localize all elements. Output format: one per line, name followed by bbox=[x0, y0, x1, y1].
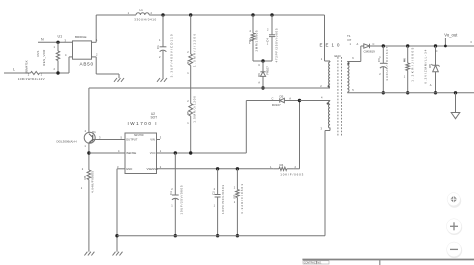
svg-text:SOT: SOT bbox=[151, 116, 158, 120]
node N-RV1 junction bbox=[56, 41, 59, 44]
svg-text:R5: R5 bbox=[186, 111, 190, 115]
wire snubber bottom bbox=[253, 60, 272, 62]
node L-RV1 junction bbox=[56, 71, 59, 74]
svg-text:C: C bbox=[373, 42, 375, 46]
node C6 bottom bbox=[382, 91, 385, 94]
zener D8 bbox=[424, 46, 440, 93]
node C3 bottom bbox=[174, 234, 177, 237]
svg-text:OUTPUT: OUTPUT bbox=[126, 138, 138, 142]
svg-text:IW1700 I: IW1700 I bbox=[128, 121, 157, 126]
svg-text:C: C bbox=[258, 63, 260, 67]
wire bridge pin1 to top rail bbox=[92, 15, 97, 42]
svg-text:FR107: FR107 bbox=[266, 66, 270, 75]
svg-text:C6: C6 bbox=[377, 58, 381, 62]
node Vo_out flag bbox=[444, 33, 458, 48]
zoom buttons bbox=[446, 193, 462, 259]
wire aux pin3 drop bbox=[321, 127, 331, 236]
node startup R bottom bbox=[189, 151, 192, 154]
svg-text:L: L bbox=[13, 67, 15, 71]
svg-text:10R/1W/D4L12V: 10R/1W/D4L12V bbox=[18, 77, 45, 81]
svg-text:B5M471K: B5M471K bbox=[25, 60, 29, 73]
wire top rail left bbox=[96, 14, 136, 16]
svg-text:DGL3006(A)-H: DGL3006(A)-H bbox=[57, 139, 77, 143]
node C1 top bbox=[161, 13, 164, 16]
svg-text:330UH/0410: 330UH/0410 bbox=[134, 18, 156, 22]
wire VSENSE rail bbox=[157, 168, 274, 170]
capacitor C1 3.3UF/400V bbox=[156, 15, 174, 78]
node C6 top bbox=[382, 44, 385, 47]
svg-text:330UF/10V/6X7: 330UF/10V/6X7 bbox=[385, 46, 389, 80]
svg-text:6.2V/ZMM/LL-34: 6.2V/ZMM/LL-34 bbox=[424, 49, 428, 83]
core bbox=[337, 57, 339, 136]
diode D7 CM5819 output bbox=[350, 42, 474, 54]
wire IC pin3 NC stub bbox=[157, 139, 161, 141]
svg-text:RES_VDR: RES_VDR bbox=[42, 49, 46, 66]
wire Q1 emitter bbox=[88, 143, 90, 170]
svg-text:CONTRACT: CONTRACT bbox=[304, 262, 318, 265]
svg-text:R3: R3 bbox=[186, 60, 190, 64]
svg-text:NO.: NO. bbox=[317, 262, 322, 265]
wire aux junction to T1 pin4 bbox=[300, 100, 331, 102]
svg-text:A: A bbox=[289, 96, 291, 100]
node snubber R2 top bbox=[251, 13, 254, 16]
svg-text:10UF/25V/0805: 10UF/25V/0805 bbox=[179, 185, 183, 214]
wire IC GND pin to ground bbox=[117, 169, 125, 252]
node C2 bottom bbox=[216, 234, 219, 237]
diode D6 FR107 clamp bbox=[257, 61, 270, 88]
svg-text:C: C bbox=[436, 49, 438, 53]
svg-text:4.32K/F/0603: 4.32K/F/0603 bbox=[240, 184, 244, 214]
bridge rectifier U1 AB50 bbox=[58, 35, 99, 67]
wire VCC riser bbox=[245, 101, 247, 154]
node VCC cap bbox=[174, 151, 177, 154]
resistor F1 (fusible 10R/1W) bbox=[18, 60, 45, 81]
title block bbox=[302, 260, 474, 265]
node snubber C4 top bbox=[270, 13, 273, 16]
svg-text:L1: L1 bbox=[140, 8, 144, 12]
primary winding bbox=[329, 62, 330, 87]
resistor R5 1.5M lower bbox=[186, 96, 196, 153]
svg-text:1.5MR/J/1206: 1.5MR/J/1206 bbox=[192, 34, 196, 67]
secondary winding bbox=[347, 62, 349, 93]
wire GND rail bbox=[117, 235, 325, 237]
wire top rail right bbox=[149, 14, 324, 16]
node emitter-ISENSE junction bbox=[87, 151, 90, 154]
inductor L1 330UH bbox=[128, 8, 157, 22]
node R8 bottom bbox=[406, 91, 409, 94]
transformer T1 EE10 bbox=[320, 15, 355, 136]
svg-text:R8: R8 bbox=[402, 58, 406, 62]
wire ISENSE to IC bbox=[89, 152, 125, 154]
svg-text:D6: D6 bbox=[257, 73, 261, 77]
svg-text:R4: R4 bbox=[280, 163, 284, 167]
node snubber-D6 bbox=[261, 59, 264, 62]
svg-text:CM5819: CM5819 bbox=[364, 50, 376, 54]
node C2 top bbox=[216, 167, 219, 170]
node startup R top bbox=[189, 13, 192, 16]
resistor R3 1.5M upper bbox=[186, 15, 196, 104]
svg-text:D8: D8 bbox=[428, 64, 432, 68]
svg-text:10PF/50V/0603: 10PF/50V/0603 bbox=[221, 185, 225, 214]
wire aux/VCC line bbox=[246, 100, 279, 102]
svg-text:GND: GND bbox=[126, 167, 132, 171]
svg-text:A: A bbox=[258, 81, 260, 85]
diode D5 FR107 bbox=[272, 95, 300, 107]
svg-text:U1: U1 bbox=[58, 35, 63, 39]
svg-text:D5: D5 bbox=[280, 95, 284, 99]
wire VCC rail bbox=[157, 152, 247, 154]
capacitor C3 10UF VCC bbox=[169, 153, 183, 236]
wire L to bridge pin4 bbox=[68, 57, 70, 73]
node R7 top bbox=[236, 167, 239, 170]
svg-text:VCC: VCC bbox=[150, 151, 156, 155]
svg-text:1.2KR/J/0805: 1.2KR/J/0805 bbox=[411, 47, 415, 81]
node R8 top bbox=[406, 44, 409, 47]
transistor Q1 DGL3006 bbox=[57, 129, 102, 148]
wire secondary top to D7 bbox=[347, 46, 364, 62]
svg-text:VSENSE: VSENSE bbox=[147, 167, 158, 171]
svg-text:AB50: AB50 bbox=[80, 61, 94, 66]
node aux junction bbox=[298, 99, 301, 102]
svg-text:iW1700: iW1700 bbox=[134, 133, 144, 137]
svg-text:472PF/250V/0805: 472PF/250V/0805 bbox=[275, 28, 279, 62]
svg-text:EE10: EE10 bbox=[335, 55, 342, 58]
node D6 anode on switch rail bbox=[261, 86, 264, 89]
svg-text:2MR/J/0805: 2MR/J/0805 bbox=[255, 30, 259, 51]
svg-text:N: N bbox=[41, 38, 44, 42]
svg-text:Vo_out: Vo_out bbox=[444, 33, 458, 38]
wire N input bbox=[38, 38, 73, 43]
svg-text:10K/F/0603: 10K/F/0603 bbox=[280, 172, 303, 176]
ground (IC) bbox=[113, 252, 123, 256]
aux winding bbox=[328, 101, 330, 128]
svg-text:1.5MR/J/1206: 1.5MR/J/1206 bbox=[192, 96, 196, 123]
ground (bridge) bbox=[114, 78, 124, 82]
IC U2 iW1700 controller bbox=[117, 112, 162, 174]
wire switch-node rail bbox=[89, 88, 330, 132]
svg-text:A: A bbox=[357, 42, 359, 46]
ground (secondary, earth triangle) bbox=[451, 93, 460, 119]
resistor R8 load bbox=[402, 46, 414, 93]
wire L input bbox=[4, 67, 69, 73]
ground (C1) bbox=[157, 78, 167, 82]
svg-text:Q1: Q1 bbox=[92, 130, 96, 134]
svg-text:VIN: VIN bbox=[150, 138, 155, 142]
resistor R7 4.32K divider bbox=[233, 169, 245, 236]
varistor RV1 RES_VDR bbox=[36, 42, 60, 73]
wire VSENSE riser bbox=[299, 101, 301, 169]
resistor R6 4.64K sense bbox=[81, 167, 95, 252]
svg-text:C3: C3 bbox=[169, 191, 173, 195]
resistor R4 10K horizontal bbox=[270, 163, 304, 176]
capacitor C6 330UF output bbox=[377, 46, 389, 93]
svg-text:BRIDGE: BRIDGE bbox=[75, 35, 87, 39]
svg-text:C: C bbox=[272, 96, 274, 100]
svg-text:4.64K/F/0805: 4.64K/F/0805 bbox=[91, 171, 95, 193]
svg-text:C4: C4 bbox=[265, 38, 269, 42]
svg-text:R7: R7 bbox=[233, 194, 237, 198]
wire secondary bottom rail bbox=[347, 92, 474, 94]
svg-text:R2: R2 bbox=[248, 38, 252, 42]
capacitor C4 472PF snubber bbox=[265, 15, 278, 63]
node R7 bottom bbox=[236, 234, 239, 237]
svg-text:FR107: FR107 bbox=[272, 103, 281, 107]
node D8 bottom bbox=[434, 91, 437, 94]
wire bridge pin2 to ground bbox=[92, 57, 120, 78]
svg-text:R6: R6 bbox=[83, 175, 87, 179]
node sec gnd branch bbox=[454, 91, 457, 94]
capacitor C2 10PF bbox=[212, 169, 226, 236]
svg-text:D7: D7 bbox=[348, 38, 352, 42]
wire Q1 base to IC output bbox=[95, 139, 125, 141]
ground (Q1 emitter) bbox=[84, 252, 94, 256]
svg-text:A: A bbox=[430, 83, 432, 87]
svg-text:ISENSE: ISENSE bbox=[126, 151, 136, 155]
svg-text:C2: C2 bbox=[212, 191, 216, 195]
svg-text:C1: C1 bbox=[156, 45, 160, 49]
svg-text:RV1: RV1 bbox=[36, 50, 40, 56]
node GND rail left end bbox=[115, 234, 118, 237]
resistor R2 2M snubber bbox=[248, 15, 259, 61]
node D8 top bbox=[434, 44, 437, 47]
